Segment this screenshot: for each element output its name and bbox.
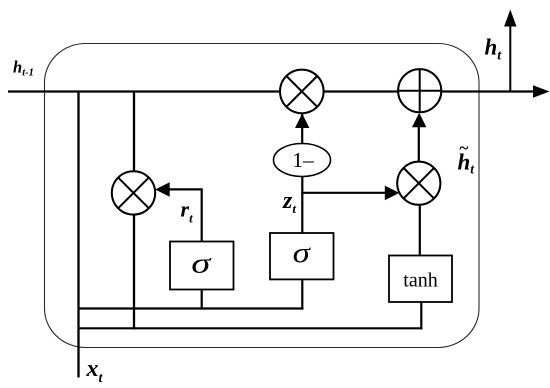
1- ellipse node	[274, 144, 331, 177]
arrowhead: into reset multiplier	[155, 182, 170, 197]
wire: z_t to candidate multiplier	[301, 192, 385, 194]
svg-text:σ: σ	[191, 248, 211, 279]
svg-text:~: ~	[460, 139, 469, 158]
arrowhead: into candidate multiplier	[385, 186, 400, 201]
wire: candidate multiplier up to adder	[418, 127, 420, 162]
label h tilde candidate	[458, 139, 476, 177]
wire: branch down to 1- ellipse	[301, 114, 303, 145]
wire: sigma r bottom stub	[201, 289, 203, 310]
candidate multiplier node	[397, 162, 440, 205]
arrowhead: main line output right	[533, 85, 550, 98]
wire: sigma z bottom stub	[301, 279, 303, 310]
svg-text:tanh: tanh	[403, 270, 438, 291]
multiplier node on main line	[280, 70, 324, 114]
GRU cell outer rounded box	[45, 44, 480, 348]
svg-text:σ: σ	[293, 236, 311, 269]
wire: h_t output vertical	[509, 26, 511, 92]
arrowhead: into adder from below	[412, 113, 426, 127]
arrowhead: into multiplier from 1-	[295, 114, 309, 128]
arrowhead: h_t up	[504, 10, 516, 27]
wire: bottom bus B	[78, 327, 423, 329]
reset multiplier node	[112, 171, 155, 214]
wire: main h line (h_{t-1} to output)	[8, 90, 534, 92]
adder node on main line	[398, 69, 441, 112]
wire: tanh bottom stub	[420, 302, 422, 330]
sigma box r gate	[170, 242, 234, 290]
wire: x_t input vertical	[77, 92, 79, 378]
wire: bottom bus A	[78, 307, 304, 309]
wire: r_t from sigma up and left	[169, 189, 202, 241]
wire: z line below ellipse to sigma box	[301, 176, 303, 235]
wire: branch down to reset multiplier	[133, 92, 135, 173]
svg-text:1–: 1–	[292, 148, 314, 172]
wire: tanh top to candidate multiplier	[419, 204, 421, 256]
sigma box z gate	[270, 233, 334, 279]
wire: reset multiplier output down	[133, 214, 135, 330]
tanh box	[389, 256, 452, 303]
